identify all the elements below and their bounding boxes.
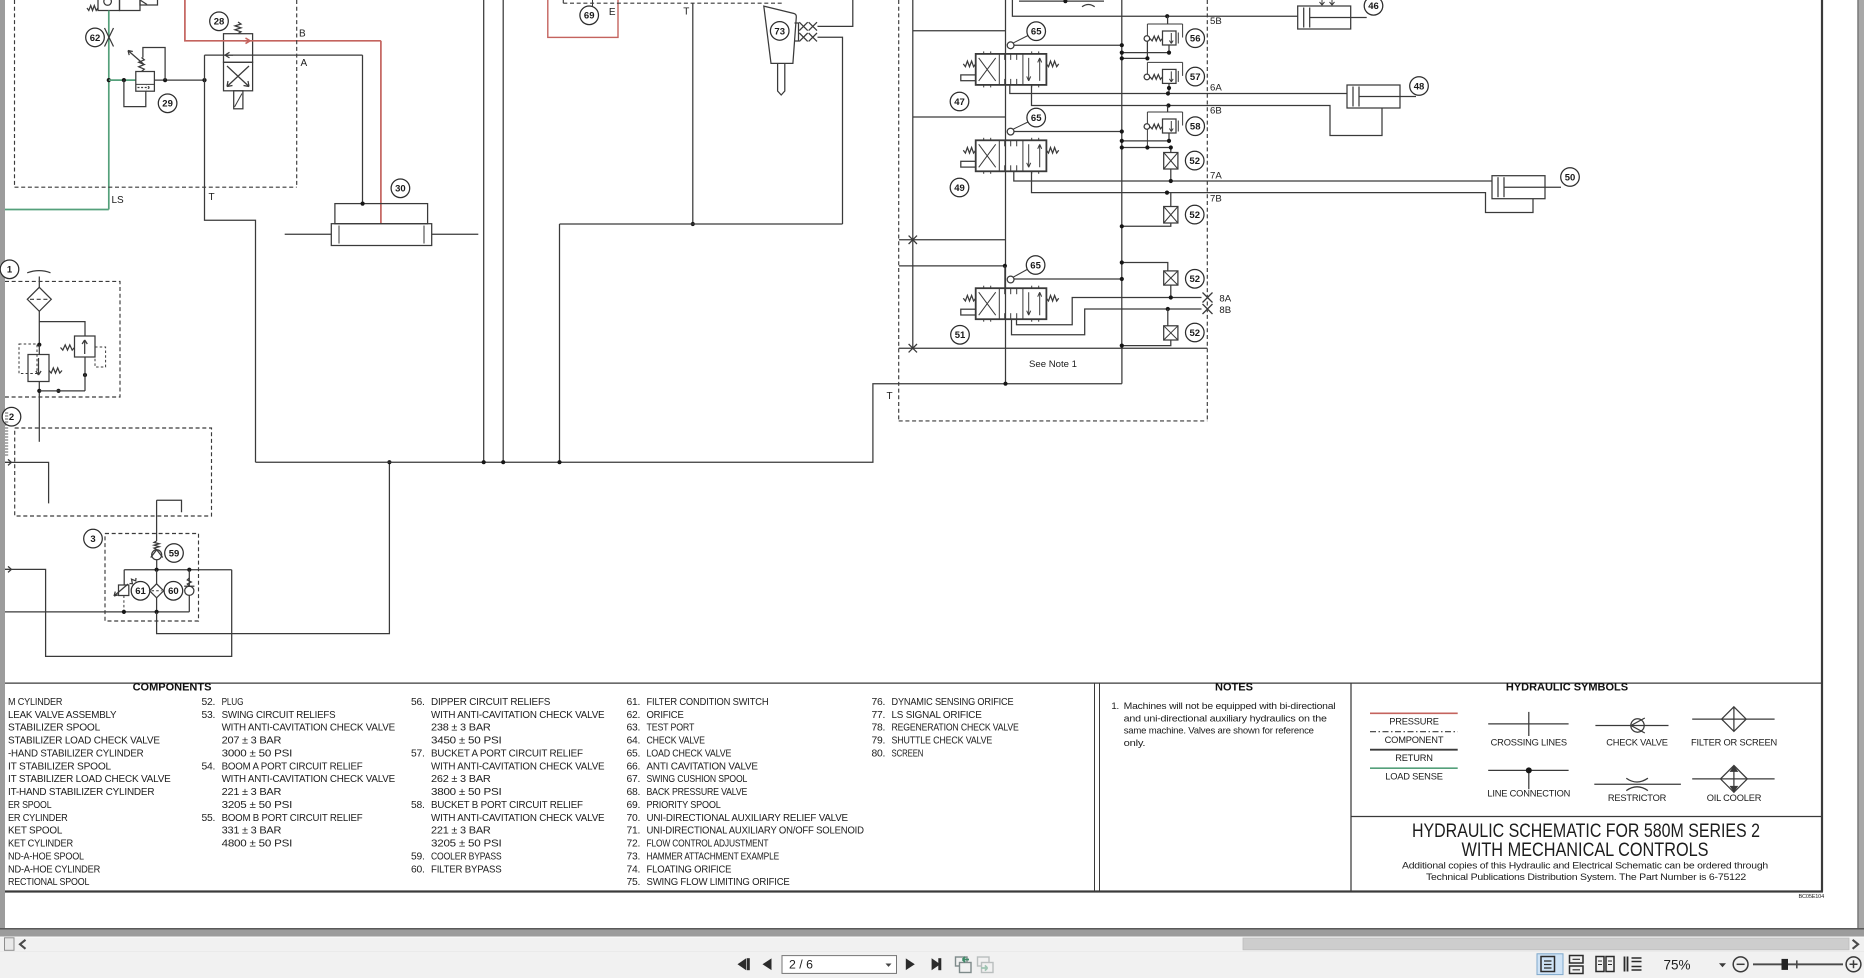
svg-text:28: 28 (214, 17, 225, 28)
svg-text:ANTI CAVITATION VALVE: ANTI CAVITATION VALVE (647, 761, 759, 772)
boom cylinder 46 (1298, 6, 1351, 29)
balloon label 65 (1026, 256, 1045, 275)
junction below relief (83, 373, 87, 377)
svg-text:62.: 62. (627, 710, 641, 721)
svg-text:ND-A-HOE CYLINDER: ND-A-HOE CYLINDER (8, 864, 100, 875)
svg-text:50: 50 (1565, 172, 1576, 183)
relief 57 to 6A wire (1168, 83, 1170, 93)
adjustment arrow of relief 29 (128, 51, 144, 65)
pilot wire to valve 51 (899, 265, 1005, 267)
svg-text:UNI-DIRECTIONAL AUXILIARY ON/O: UNI-DIRECTIONAL AUXILIARY ON/OFF SOLENOI… (647, 826, 864, 837)
crossing lines symbol (1488, 723, 1568, 725)
svg-text:262 ± 3 BAR: 262 ± 3 BAR (431, 774, 491, 785)
balloon label 52 (1185, 151, 1204, 170)
wire port 6B (1032, 85, 1169, 106)
balloon label 69 (580, 6, 599, 25)
quick coupler 8A x2 (799, 22, 807, 30)
wire stub into component 2 (5, 462, 49, 503)
zoom in button (1846, 957, 1861, 972)
svg-text:LEAK VALVE ASSEMBLY: LEAK VALVE ASSEMBLY (8, 710, 117, 721)
svg-text:6A: 6A (1210, 83, 1222, 94)
svg-text:HYDRAULIC SYMBOLS: HYDRAULIC SYMBOLS (1506, 682, 1628, 694)
relief 56 pilot wire (1122, 41, 1148, 58)
balloon label 56 (1186, 29, 1205, 48)
svg-text:55.: 55. (202, 813, 216, 824)
pilot loop of relief 29 (143, 48, 165, 81)
svg-text:60.: 60. (411, 864, 425, 875)
svg-text:3: 3 (90, 534, 95, 545)
svg-text:7A: 7A (1210, 171, 1222, 182)
svg-text:ER SPOOL: ER SPOOL (8, 800, 52, 811)
last page button (932, 958, 941, 970)
svg-text:8A: 8A (1219, 294, 1231, 305)
svg-text:ND-A-HOE SPOOL: ND-A-HOE SPOOL (8, 851, 84, 862)
see-note box left side (1005, 348, 1007, 384)
svg-text:61: 61 (135, 586, 146, 597)
wire A-line down to cylinder 30 (362, 55, 364, 204)
svg-text:LOAD CHECK VALVE: LOAD CHECK VALVE (647, 748, 732, 759)
filter 3 bottom gallery wire to page edge (5, 611, 189, 613)
load check wire to return trunk (49) (1014, 131, 1122, 133)
balloon label 73 (770, 22, 789, 41)
pilot wire to valve 49 (913, 116, 1006, 118)
plug 52 (7B) top wire (1170, 193, 1172, 207)
wire port 5B from valve 45 (1012, 0, 1167, 16)
balloon label 65 (1027, 22, 1046, 41)
svg-text:TEST PORT: TEST PORT (647, 723, 695, 734)
restrictor symbol (1594, 783, 1681, 785)
hammer attachment example 73 (764, 6, 797, 63)
balloon label 52 (1185, 205, 1204, 224)
plug 52 (8B) top wire (1167, 309, 1169, 326)
red line down to swing cylinder 30 (380, 41, 382, 224)
relief 58 top wire (1167, 106, 1169, 113)
gray band below page (0, 930, 1864, 937)
svg-text:Additional copies of this Hydr: Additional copies of this Hydraulic and … (1402, 861, 1768, 872)
svg-text:SHUTTLE CHECK VALVE: SHUTTLE CHECK VALVE (892, 736, 993, 747)
svg-text:SWING FLOW LIMITING ORIFICE: SWING FLOW LIMITING ORIFICE (647, 877, 790, 888)
return detour wire around filter 3 (5, 569, 232, 656)
spring of 61 (130, 578, 137, 584)
svg-text:73: 73 (774, 26, 785, 37)
svg-text:LOAD SENSE: LOAD SENSE (1385, 772, 1442, 782)
check valve body in filter assy (28, 355, 49, 382)
svg-text:48: 48 (1414, 81, 1425, 92)
svg-text:66.: 66. (627, 761, 641, 772)
svg-text:65.: 65. (627, 748, 641, 759)
LS signal line (green) vertical (108, 11, 110, 210)
hammer port tab (795, 23, 799, 41)
svg-text:221 ± 3 BAR: 221 ± 3 BAR (431, 826, 491, 837)
svg-text:RESTRICTOR: RESTRICTOR (1608, 793, 1667, 803)
svg-text:BUCKET A PORT CIRCUIT RELIEF: BUCKET A PORT CIRCUIT RELIEF (431, 748, 583, 759)
svg-text:221 ± 3 BAR: 221 ± 3 BAR (222, 787, 282, 798)
svg-text:ORIFICE: ORIFICE (647, 710, 684, 721)
load check valve 65 (valve 47) (1007, 42, 1014, 49)
legend table top border (5, 682, 1822, 684)
svg-text:74.: 74. (627, 864, 641, 875)
drain loop of relief 29 (124, 80, 146, 107)
relief 58 outlet wire (1168, 133, 1170, 141)
svg-text:BOOM B PORT CIRCUIT RELIEF: BOOM B PORT CIRCUIT RELIEF (222, 813, 363, 824)
page-edge arrow on return line (5, 566, 11, 572)
svg-text:WITH ANTI-CAVITATION CHECK VAL: WITH ANTI-CAVITATION CHECK VALVE (431, 761, 605, 772)
bypass check valve of filter 3 (188, 570, 190, 586)
single page layout button (selected) (1537, 954, 1563, 975)
balloon label 65 (1027, 108, 1046, 127)
svg-text:SWING CUSHION SPOOL: SWING CUSHION SPOOL (647, 774, 748, 785)
facing layout button (1596, 957, 1614, 972)
svg-text:T: T (683, 7, 689, 18)
svg-text:73.: 73. (627, 851, 641, 862)
svg-text:29: 29 (162, 99, 173, 110)
wire port 8B (1012, 309, 1202, 335)
return line sample (1370, 749, 1458, 751)
wire T vertical from top (692, 3, 694, 224)
svg-text:-HAND STABILIZER CYLINDER: -HAND STABILIZER CYLINDER (8, 748, 144, 759)
balloon label 57 (1186, 67, 1205, 86)
schematic outer frame bottom edge (5, 890, 1823, 892)
spring right of check (49, 368, 62, 373)
dashed box right edge (296, 0, 298, 187)
directional valve 51 (976, 288, 1047, 319)
components/notes divider b (1099, 683, 1101, 891)
svg-text:331 ± 3 BAR: 331 ± 3 BAR (222, 826, 282, 837)
balloon label 61 (131, 582, 150, 601)
svg-text:30: 30 (395, 184, 406, 195)
svg-text:57.: 57. (411, 748, 425, 759)
svg-text:53.: 53. (202, 710, 216, 721)
8A plugged port X (1203, 293, 1213, 303)
svg-text:3000 ± 50 PSI: 3000 ± 50 PSI (222, 748, 293, 759)
line connection symbol (1488, 769, 1568, 771)
page number box (782, 956, 897, 974)
page bottom shadow line (0, 928, 1864, 930)
svg-text:61.: 61. (627, 697, 641, 708)
svg-text:PLUG: PLUG (222, 697, 244, 708)
svg-text:only.: only. (1124, 738, 1146, 749)
svg-text:3450 ± 50 PSI: 3450 ± 50 PSI (431, 736, 502, 747)
horizontal hammer return wire y=224 (560, 223, 843, 225)
svg-text:77.: 77. (872, 710, 886, 721)
horizontal scrollbar track (0, 937, 1864, 952)
hammer supply wire up (818, 0, 853, 26)
svg-text:A: A (301, 58, 308, 69)
load check valve 65 (valve 49) (1007, 128, 1014, 135)
main trunk line 2 (502, 0, 504, 462)
svg-text:46: 46 (1368, 1, 1379, 12)
svg-text:Technical Publications Distrib: Technical Publications Distribution Syst… (1426, 872, 1746, 883)
spring of bypass relief (61, 345, 75, 350)
balloon label 48 (1410, 77, 1429, 96)
svg-text:52: 52 (1189, 210, 1200, 221)
svg-text:RECTIONAL SPOOL: RECTIONAL SPOOL (8, 877, 90, 888)
priority spool 69 (red reference box) (548, 0, 618, 37)
wire port 7A to dipper cylinder 50 (1014, 171, 1492, 181)
backhoe valve dashed box bottom edge (899, 420, 1208, 422)
svg-text:REGENERATION CHECK VALVE: REGENERATION CHECK VALVE (892, 723, 1019, 734)
svg-text:WITH MECHANICAL CONTROLS: WITH MECHANICAL CONTROLS (1462, 839, 1709, 861)
svg-text:207 ± 3 BAR: 207 ± 3 BAR (222, 736, 282, 747)
svg-text:FILTER CONDITION SWITCH: FILTER CONDITION SWITCH (647, 697, 769, 708)
main trunk line 1 (483, 0, 485, 462)
backhoe valve dashed box right edge (1206, 0, 1208, 421)
svg-text:BC05E104: BC05E104 (1799, 894, 1825, 900)
balloon label 30 (391, 179, 410, 198)
balloon label 47 (950, 92, 969, 111)
plug 52 top wire (1170, 148, 1172, 153)
red arrow in valve 28 (243, 38, 250, 44)
svg-text:62: 62 (90, 33, 101, 44)
relief 56 outlet wire (1168, 45, 1170, 53)
svg-text:LS: LS (112, 195, 125, 206)
swing cylinder 30 (335, 204, 428, 224)
plug 52 (7B) drain wire (1122, 223, 1171, 226)
svg-text:52: 52 (1189, 156, 1200, 167)
plug 52 (8A) (1164, 271, 1178, 285)
red pressure line from top to B / valve 28 (185, 0, 381, 41)
svg-text:STABILIZER LOAD CHECK VALVE: STABILIZER LOAD CHECK VALVE (8, 736, 160, 747)
filter 3 top gallery wire (124, 569, 232, 571)
wire 5B to boom cylinder 46 (1167, 15, 1298, 17)
svg-text:WITH ANTI-CAVITATION CHECK VAL: WITH ANTI-CAVITATION CHECK VALVE (431, 813, 605, 824)
svg-text:54.: 54. (202, 761, 216, 772)
valve 28 solenoid tab (234, 91, 243, 109)
valve 28 body (224, 34, 253, 63)
components/notes divider a (1094, 683, 1096, 891)
filter 1 diamond (27, 287, 51, 311)
bucket B relief 58 (1147, 111, 1182, 113)
bucket A relief 57 (1147, 61, 1182, 63)
component line sample (1370, 731, 1458, 733)
dashed box component 2 (15, 428, 212, 516)
previous page button (763, 958, 772, 970)
T return gallery wire (256, 384, 1122, 463)
svg-text:65: 65 (1031, 113, 1042, 124)
svg-text:BOOM A PORT CIRCUIT RELIEF: BOOM A PORT CIRCUIT RELIEF (222, 761, 363, 772)
relief 58 pilot drain wire (1122, 147, 1171, 149)
svg-text:COMPONENTS: COMPONENTS (133, 682, 212, 694)
svg-text:76.: 76. (872, 697, 886, 708)
balloon label 50 (1561, 168, 1580, 187)
svg-text:238 ± 3 BAR: 238 ± 3 BAR (431, 723, 491, 734)
left branch to solenoid 61 (123, 570, 125, 585)
svg-text:3205 ± 50 PSI: 3205 ± 50 PSI (431, 839, 502, 850)
svg-text:75%: 75% (1664, 958, 1691, 973)
junction A line on cylinder 30 (361, 202, 365, 206)
hammer chisel (778, 63, 785, 95)
cylinder 30 rod left (285, 233, 332, 235)
svg-text:80.: 80. (872, 748, 886, 759)
directional valve 49 (976, 140, 1047, 171)
svg-text:52.: 52. (202, 697, 216, 708)
oil cooler symbol (1692, 778, 1774, 780)
load sense line sample (1370, 767, 1458, 769)
continuous facing layout button (1625, 957, 1642, 972)
hook wire in component 2 (157, 500, 182, 512)
first page button (738, 958, 747, 970)
balloon label 28 (210, 12, 229, 31)
svg-text:KET SPOOL: KET SPOOL (8, 826, 63, 837)
dashed box left edge (14, 0, 16, 187)
balloon 2 (half cut) (2, 407, 21, 426)
svg-text:CHECK VALVE: CHECK VALVE (1606, 737, 1668, 747)
wire relief29 out to valve28 T branch (154, 79, 204, 81)
svg-text:56.: 56. (411, 697, 425, 708)
svg-text:5B: 5B (1210, 16, 1222, 27)
valve assembly (cut off at page top) (98, 0, 120, 11)
wire from breather to filter (38, 277, 40, 288)
svg-text:same machine. Valves are shown: same machine. Valves are shown for refer… (1124, 726, 1314, 737)
pilot wire to valve 47 (913, 30, 1006, 32)
svg-text:RETURN: RETURN (1395, 753, 1433, 763)
relief valve 29 body (136, 72, 155, 92)
svg-text:72.: 72. (627, 839, 641, 850)
svg-text:58.: 58. (411, 800, 425, 811)
dipper cylinder 50 (1492, 176, 1545, 199)
vertical scrollbar strip at right (1857, 0, 1858, 928)
svg-text:and uni-directional auxiliary: and uni-directional auxiliary hydraulics… (1124, 713, 1327, 724)
svg-text:PRESSURE: PRESSURE (1389, 717, 1439, 727)
svg-text:7B: 7B (1210, 194, 1222, 205)
see-note box right side (1121, 348, 1123, 384)
plug 52 (8B) drain wire (1122, 340, 1171, 346)
backhoe valve dashed box left edge (898, 0, 900, 421)
svg-text:4800 ± 50 PSI: 4800 ± 50 PSI (222, 839, 293, 850)
svg-text:T: T (209, 192, 215, 203)
svg-text:OIL COOLER: OIL COOLER (1707, 793, 1762, 803)
load check wire to return trunk (51) (1014, 278, 1122, 280)
notes/symbols divider (1350, 683, 1352, 891)
valve section above (cut off) (1019, 0, 1104, 2)
svg-text:68.: 68. (627, 787, 641, 798)
wire relief to bottom (84, 357, 86, 391)
svg-text:2: 2 (9, 412, 14, 423)
svg-text:47: 47 (954, 97, 965, 108)
dashed box component 3 (105, 534, 199, 622)
balloon label 62 (86, 28, 105, 47)
pilot wire y=240 (899, 239, 1006, 241)
svg-text:DIPPER CIRCUIT RELIEFS: DIPPER CIRCUIT RELIEFS (431, 697, 551, 708)
wire 7B to cylinder 50 rod end (1167, 193, 1533, 213)
green branch to relief 29 (109, 79, 136, 81)
svg-text:IT-HAND STABILIZER CYLINDER: IT-HAND STABILIZER CYLINDER (8, 787, 154, 798)
svg-text:69.: 69. (627, 800, 641, 811)
svg-text:64.: 64. (627, 736, 641, 747)
svg-text:60: 60 (168, 586, 179, 597)
svg-text:67.: 67. (627, 774, 641, 785)
svg-text:FLOATING ORIFICE: FLOATING ORIFICE (647, 864, 732, 875)
svg-text:59: 59 (169, 548, 180, 559)
svg-text:STABILIZER SPOOL: STABILIZER SPOOL (8, 723, 101, 734)
svg-text:WITH ANTI-CAVITATION CHECK VAL: WITH ANTI-CAVITATION CHECK VALVE (222, 774, 396, 785)
load check wire to return trunk (47) (1014, 44, 1122, 46)
svg-text:Machines will not be equipped: Machines will not be equipped with bi-di… (1124, 701, 1336, 712)
svg-text:M CYLINDER: M CYLINDER (8, 697, 62, 708)
svg-text:See Note 1: See Note 1 (1029, 359, 1077, 370)
hose ticks above cylinder 46 (1320, 0, 1335, 5)
svg-text:79.: 79. (872, 736, 886, 747)
filter or screen symbol (1692, 718, 1774, 720)
schematic outer frame right edge (1821, 0, 1823, 892)
LS trunk in valve bank (912, 0, 914, 348)
junction green line / relief 29 line (107, 78, 111, 82)
svg-text:PRIORITY SPOOL: PRIORITY SPOOL (647, 800, 722, 811)
balloon 1 (half cut) (0, 260, 19, 279)
svg-text:71.: 71. (627, 826, 641, 837)
wire A-line from valve 28 (205, 54, 363, 56)
svg-text:75.: 75. (627, 877, 641, 888)
8B plugged port X (1203, 304, 1213, 314)
next page button (906, 958, 915, 970)
wire down to check 59 (156, 500, 158, 541)
svg-text:FILTER OR SCREEN: FILTER OR SCREEN (1691, 737, 1777, 747)
valve 28 crossed arrows (lower box) (227, 66, 249, 87)
svg-text:KET CYLINDER: KET CYLINDER (8, 839, 73, 850)
svg-text:SWING CIRCUIT RELIEFS: SWING CIRCUIT RELIEFS (222, 710, 336, 721)
balloon label 29 (158, 94, 177, 113)
bottom junction wire in filter assy (39, 390, 85, 392)
svg-text:FILTER BYPASS: FILTER BYPASS (431, 864, 502, 875)
trunk line 3 from hammer return (559, 224, 561, 462)
svg-text:51: 51 (955, 330, 966, 341)
LS signal line (green) horizontal to page edge (5, 209, 109, 211)
svg-text:49: 49 (954, 183, 965, 194)
svg-text:6B: 6B (1210, 106, 1222, 117)
svg-text:UNI-DIRECTIONAL AUXILIARY RELI: UNI-DIRECTIONAL AUXILIARY RELIEF VALVE (647, 813, 849, 824)
svg-text:59.: 59. (411, 851, 425, 862)
cylinder 30 rod right (432, 233, 479, 235)
svg-text:LINE CONNECTION: LINE CONNECTION (1487, 789, 1570, 799)
svg-text:T: T (887, 391, 893, 402)
svg-text:63.: 63. (627, 723, 641, 734)
horizontal scrollbar thumb (1243, 938, 1849, 950)
return trunk right of valves (1121, 0, 1123, 348)
balloon label 52 (1186, 270, 1205, 289)
balloon label 60 (164, 582, 183, 601)
svg-text:8B: 8B (1219, 305, 1231, 316)
crossing mark on LS trunk (909, 236, 917, 244)
svg-text:3800 ± 50 PSI: 3800 ± 50 PSI (431, 787, 502, 798)
wire port 8A (1017, 298, 1202, 325)
tank breather arc (27, 271, 50, 273)
left page-edge arrow (5, 459, 11, 465)
balloon label 49 (950, 178, 969, 197)
balloon label 46 (1364, 0, 1383, 15)
plug 52 (8A) to 8A wire (1170, 285, 1172, 297)
svg-text:56: 56 (1190, 34, 1201, 45)
stabilizer cylinder 48 (1347, 85, 1400, 108)
check valve symbol (1595, 725, 1668, 727)
svg-text:57: 57 (1190, 72, 1201, 83)
svg-text:E: E (609, 7, 616, 18)
hatched component fragment at page edge (5, 412, 8, 414)
check valve 59 (152, 550, 162, 560)
plug 52 to 7A wire (1170, 169, 1172, 181)
scrollbar right arrow (1853, 940, 1859, 949)
T drain from valve 28 down to return gallery (205, 55, 256, 462)
plug 52 (7B) (1164, 207, 1178, 224)
dipper circuit relief 56 (1147, 23, 1182, 25)
svg-text:ER CYLINDER: ER CYLINDER (8, 813, 68, 824)
svg-text:CHECK VALVE: CHECK VALVE (647, 736, 706, 747)
svg-text:SCREEN: SCREEN (892, 748, 924, 759)
next view icon (disabled) (978, 957, 994, 973)
svg-text:B: B (299, 29, 306, 40)
svg-text:NOTES: NOTES (1215, 682, 1253, 694)
svg-text:70.: 70. (627, 813, 641, 824)
zoom slider (1753, 963, 1843, 965)
